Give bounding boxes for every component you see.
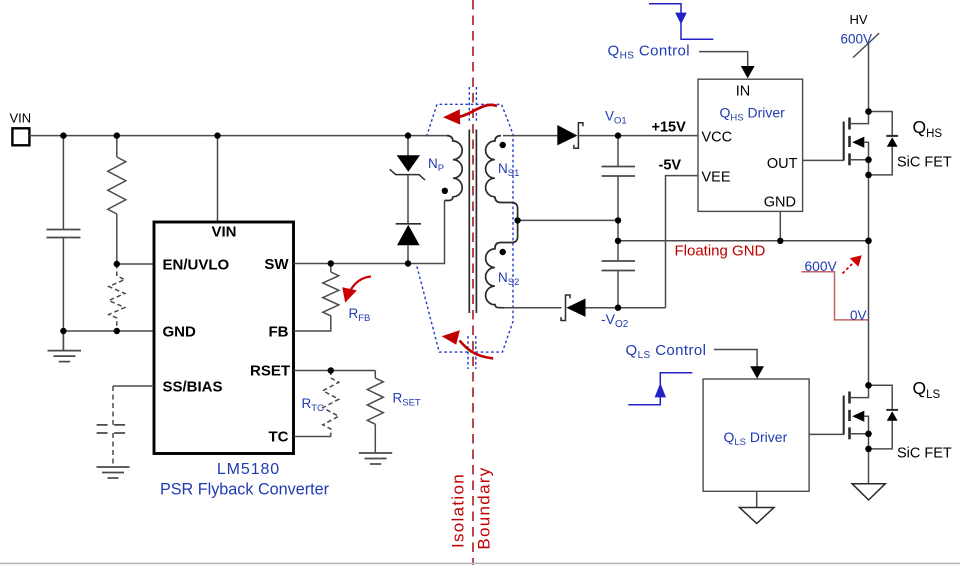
- wire: VIN rail: [29, 135, 449, 137]
- node EN/UVLO: [114, 261, 120, 267]
- resistor RTC (dashed): [323, 371, 339, 437]
- svg-text:RSET: RSET: [250, 363, 290, 380]
- junction: QLS drain: [865, 382, 872, 389]
- wire: floating GND rail: [618, 240, 869, 242]
- svg-text:Boundary: Boundary: [475, 466, 494, 549]
- junction: floating GND rail / driver GND: [777, 238, 783, 244]
- junction: SW rail / clamp D2: [405, 260, 411, 266]
- resistor RFB: [294, 264, 339, 332]
- junction: GND rail / R2: [114, 328, 120, 334]
- svg-text:600V: 600V: [805, 259, 838, 274]
- capacitor CO1: [602, 136, 636, 221]
- wire: IN control: [699, 52, 748, 67]
- QLS driver box: [703, 379, 809, 491]
- junction: QLS source stub: [865, 431, 872, 438]
- transformer secondary NS2: [486, 220, 518, 307]
- diode D2 (clamp): [396, 175, 421, 264]
- wire: IN control LS: [714, 350, 757, 367]
- svg-text:EN/UVLO: EN/UVLO: [163, 257, 230, 274]
- coupling arrow top (red): [443, 105, 497, 125]
- node VO1: [615, 132, 621, 138]
- wire: center tap: [518, 219, 618, 221]
- junction: VIN rail / CIN: [60, 132, 66, 138]
- isolation boundary red dashed line: [472, 0, 474, 565]
- junction: QHS body diode return: [865, 172, 872, 179]
- wire: OUT to gate: [803, 159, 844, 161]
- capacitor CO2: [602, 241, 636, 308]
- resistor RSET: [367, 371, 383, 454]
- junction: QHS drain: [865, 108, 872, 115]
- wire: SS/BIAS pin: [113, 385, 154, 387]
- wire: -VO2 rail: [504, 307, 562, 309]
- QLS driver ground: [740, 491, 775, 523]
- wire: TC pin: [294, 436, 331, 438]
- svg-text:TC: TC: [269, 429, 289, 446]
- QHS control waveform (blue): [649, 4, 713, 39]
- capacitor CSS (dashed): [97, 386, 126, 467]
- wire: cap midpoint to floating gnd node: [617, 220, 619, 240]
- junction: SW rail / RFB: [328, 260, 334, 266]
- NS2 phase dot: [500, 249, 506, 255]
- transformer primary NP: [445, 136, 463, 201]
- transformer core: [469, 130, 476, 314]
- arrow into QLS driver: [750, 366, 764, 378]
- junction: secondary center tap: [514, 217, 520, 223]
- QLS source ground: [852, 484, 885, 500]
- node -VO2: [615, 305, 621, 311]
- wire: HV rail to QLS drain: [868, 241, 870, 385]
- diode DO2 (schottky): [561, 295, 586, 321]
- svg-text:VCC: VCC: [702, 130, 733, 146]
- svg-text:SS/BIAS: SS/BIAS: [163, 379, 223, 396]
- svg-text:-5V: -5V: [659, 158, 682, 174]
- junction: QLS body diode return: [865, 446, 872, 453]
- junction: center tap / CO1: [615, 217, 621, 223]
- wire: EN/UVLO pin: [117, 263, 154, 265]
- ground symbol (SS): [97, 467, 130, 478]
- svg-text:VEE: VEE: [702, 170, 731, 186]
- svg-text:FB: FB: [269, 324, 289, 341]
- NS1 phase dot: [500, 142, 506, 148]
- svg-text:PSR Flyback Converter: PSR Flyback Converter: [160, 481, 330, 499]
- HV feed: [841, 12, 880, 112]
- diode DO1 (schottky): [557, 123, 583, 148]
- resistor R2 (dashed, UVLO lower): [109, 264, 125, 331]
- junction: VIN rail / clamp D1: [405, 132, 411, 138]
- svg-text:+15V: +15V: [652, 120, 687, 136]
- wire: SW rail: [294, 201, 445, 264]
- wire: driver GND pin: [779, 211, 781, 240]
- transformer secondary NS1: [486, 136, 518, 221]
- svg-text:Isolation: Isolation: [449, 473, 468, 548]
- wire: GND rail: [63, 330, 154, 332]
- svg-text:OUT: OUT: [767, 156, 798, 172]
- bottom frame line: [0, 562, 960, 564]
- junction: floating GND rail / QHS source: [865, 238, 872, 245]
- LM5180 IC body: [154, 222, 294, 454]
- label Isolation Boundary: [449, 466, 494, 549]
- junction: QHS source stub: [865, 157, 872, 164]
- ground symbol (RSET): [359, 453, 392, 464]
- QLS control waveform (blue): [628, 373, 692, 405]
- svg-text:GND: GND: [764, 195, 796, 211]
- VIN terminal: [10, 110, 32, 145]
- svg-text:GND: GND: [163, 324, 197, 341]
- coupling arrow bottom (red): [442, 330, 494, 358]
- module outline (blue dotted): [416, 87, 513, 369]
- wire: RSET pin: [294, 370, 376, 372]
- junction: GND rail / CIN: [60, 328, 66, 334]
- svg-text:Floating GND: Floating GND: [675, 243, 766, 260]
- svg-text:IN: IN: [736, 84, 751, 100]
- NP phase dot: [442, 188, 448, 194]
- svg-text:VIN: VIN: [212, 224, 237, 241]
- wire: VIN pin of IC: [217, 136, 219, 222]
- MOSFET QLS: [844, 385, 869, 483]
- feedback arrow (red): [342, 277, 371, 303]
- QLS body diode: [869, 385, 899, 449]
- QHS driver box: [698, 79, 803, 211]
- switch node waveform (red): [801, 255, 868, 323]
- wire: QLS OUT to gate: [809, 433, 844, 435]
- MOSFET QHS: [844, 112, 869, 241]
- svg-text:VIN: VIN: [10, 110, 32, 125]
- junction: VIN rail / R1: [114, 132, 120, 138]
- svg-text:HV: HV: [850, 12, 868, 27]
- svg-text:SW: SW: [264, 256, 289, 273]
- svg-text:SiC FET: SiC FET: [897, 446, 952, 462]
- junction: RSET pin / RTC: [328, 367, 334, 373]
- arrow into IN: [741, 66, 755, 78]
- svg-text:0V: 0V: [850, 308, 867, 323]
- junction: floating GND rail / CO2: [615, 238, 621, 244]
- capacitor CIN: [47, 136, 81, 331]
- wire: VO1 rail: [503, 135, 557, 137]
- zener D1 (clamp): [390, 136, 425, 180]
- junction: VIN rail / IC VIN pin: [214, 132, 220, 138]
- svg-text:LM5180: LM5180: [217, 461, 280, 478]
- resistor R1 (UVLO upper): [108, 136, 126, 264]
- wire: -VO2 to VEE: [666, 176, 699, 308]
- QHS body diode: [869, 112, 899, 175]
- svg-text:SiC FET: SiC FET: [897, 155, 952, 171]
- ground symbol (input): [48, 331, 82, 362]
